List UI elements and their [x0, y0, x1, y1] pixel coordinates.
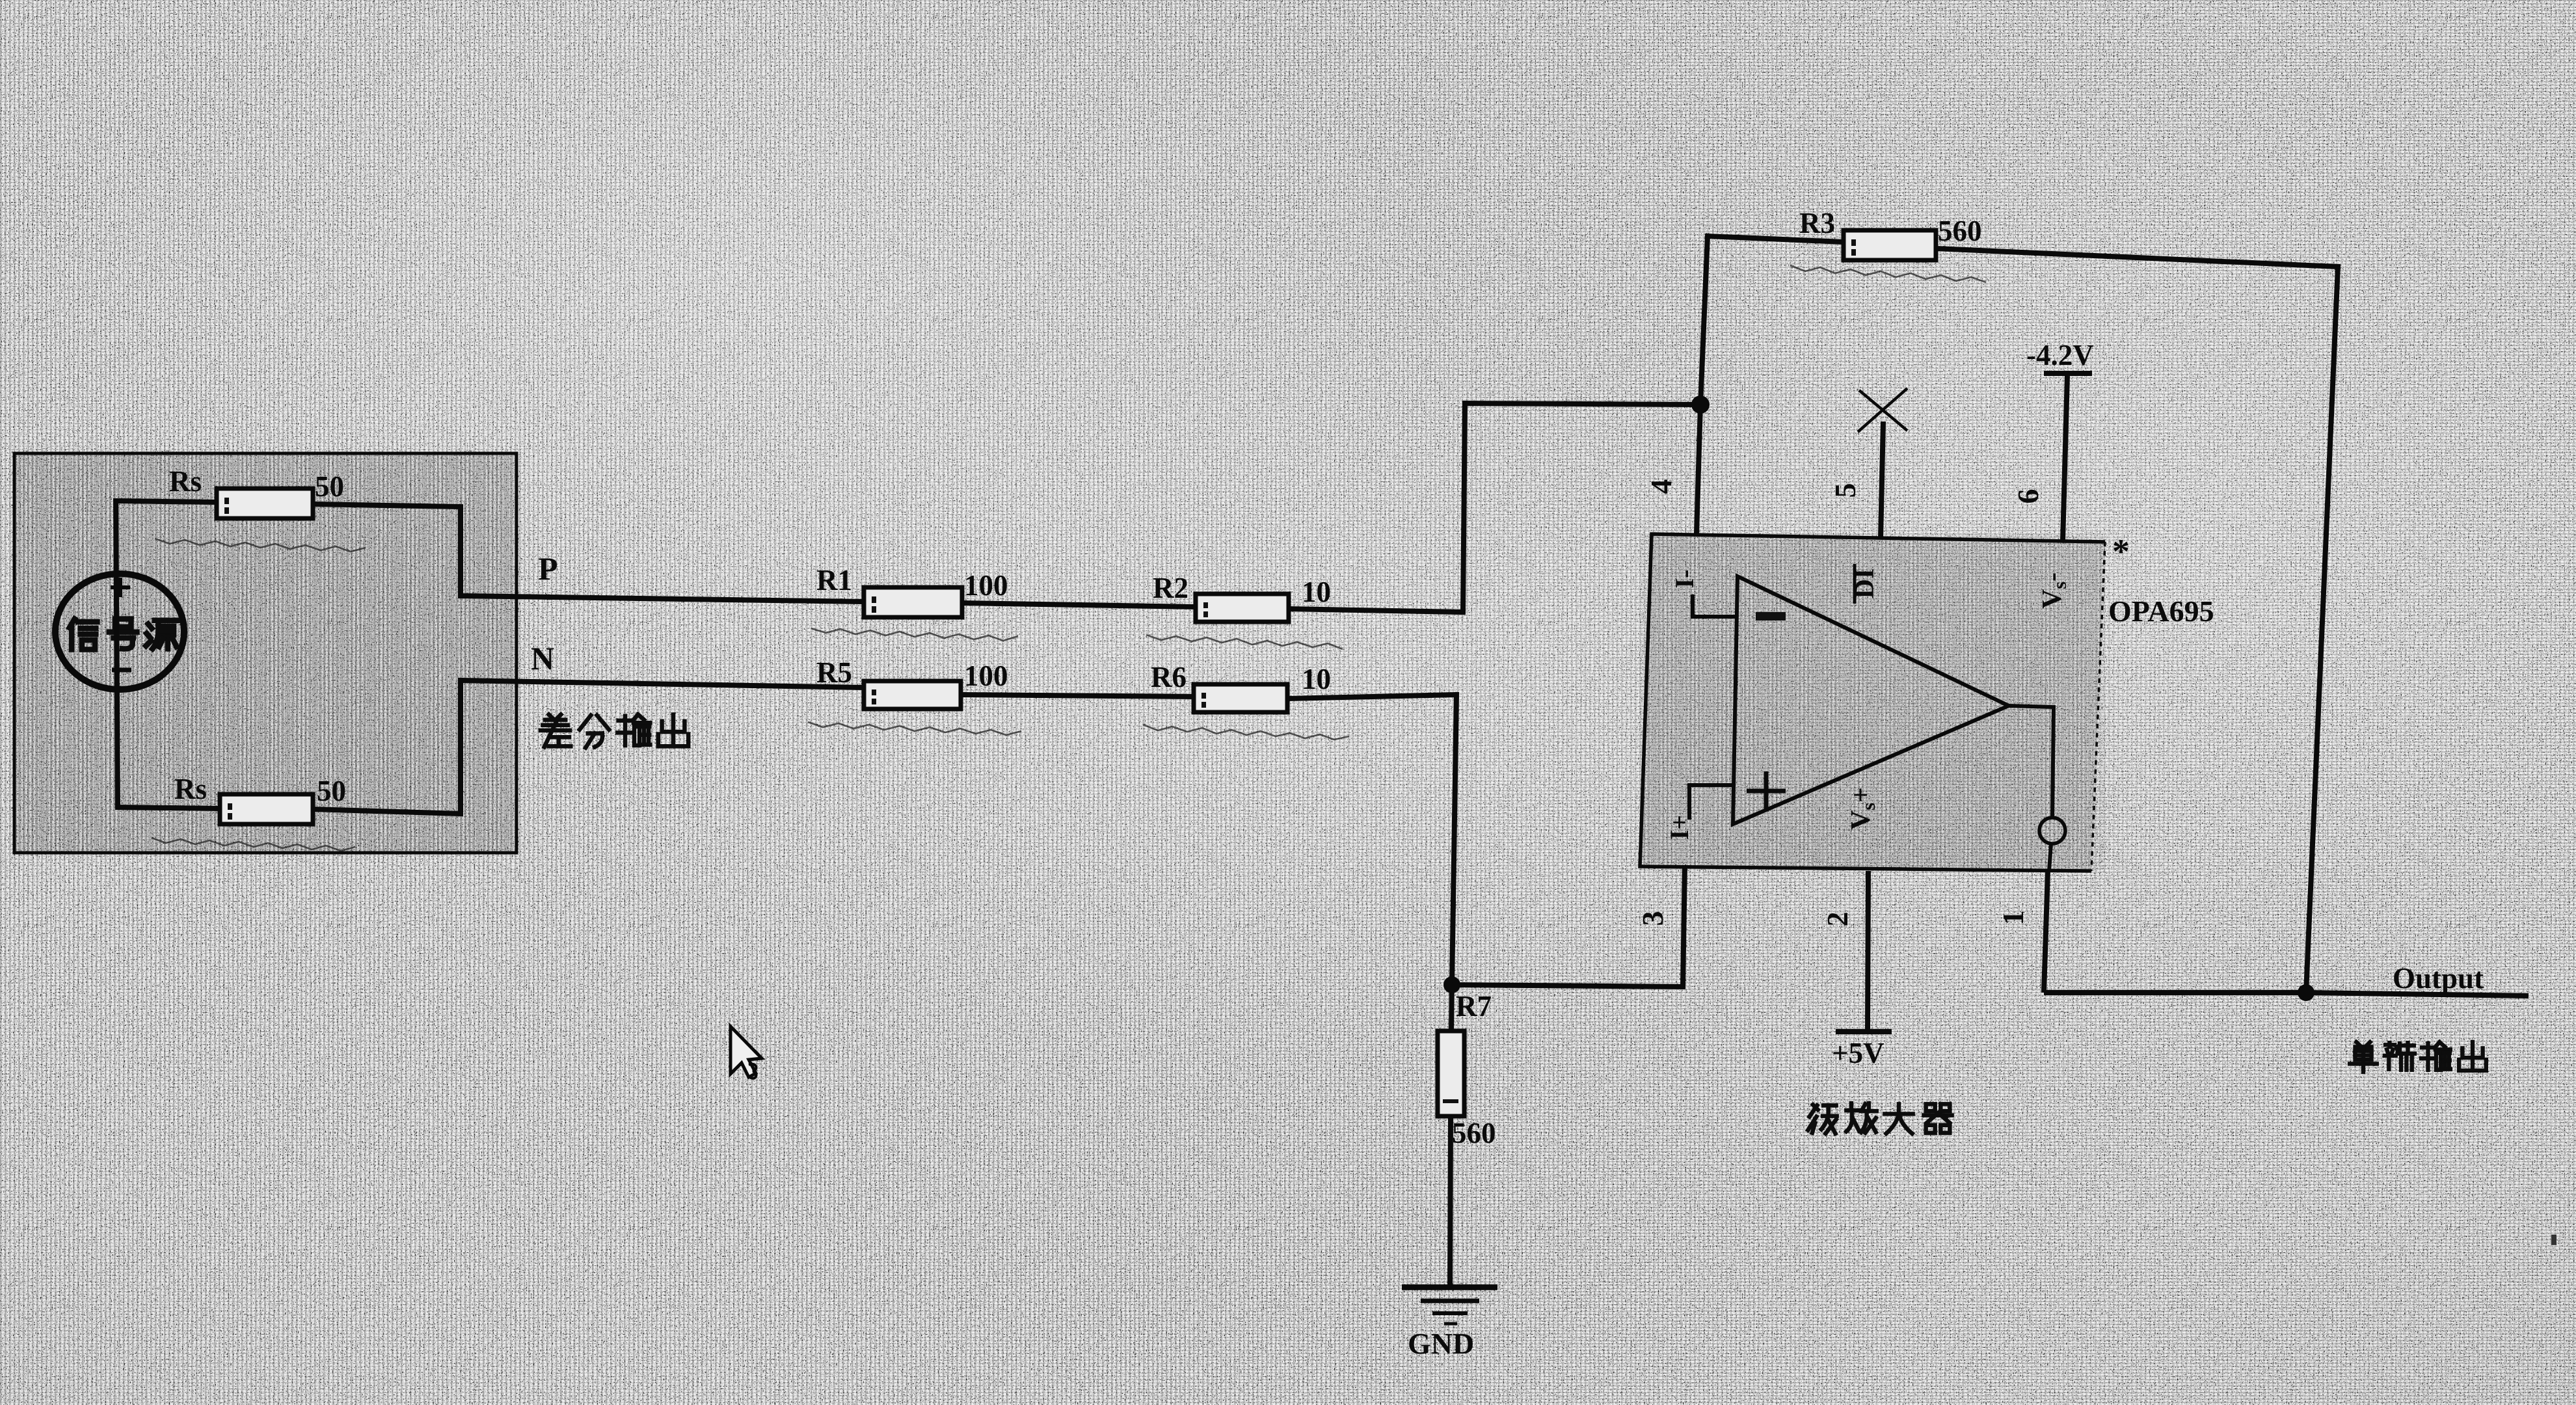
svg-text:100: 100: [964, 569, 1008, 602]
svg-text:Output: Output: [2393, 962, 2484, 995]
svg-text:5: 5: [1829, 483, 1862, 498]
svg-text:N: N: [531, 640, 554, 676]
svg-text:2: 2: [1821, 912, 1854, 927]
svg-text:100: 100: [964, 660, 1008, 692]
svg-text:Vs-: Vs-: [2037, 572, 2071, 609]
svg-text:50: 50: [317, 775, 346, 807]
svg-text:1: 1: [1996, 911, 2030, 926]
svg-text:Rs: Rs: [169, 465, 202, 498]
svg-text:GND: GND: [1408, 1327, 1474, 1360]
svg-text:Rs: Rs: [174, 773, 207, 805]
svg-text:P: P: [538, 550, 558, 587]
svg-text:10: 10: [1302, 576, 1331, 608]
svg-text:I+: I+: [1665, 815, 1694, 840]
svg-text:6: 6: [2011, 489, 2045, 504]
svg-text:560: 560: [1452, 1117, 1496, 1149]
svg-text:10: 10: [1302, 663, 1331, 695]
svg-text:+5V: +5V: [1832, 1037, 1885, 1069]
svg-text:R7: R7: [1456, 990, 1492, 1023]
svg-text:3: 3: [1636, 911, 1669, 926]
svg-text:560: 560: [1938, 215, 1982, 247]
svg-text:R2: R2: [1153, 572, 1188, 604]
svg-text:4: 4: [1644, 479, 1678, 494]
svg-text:R1: R1: [816, 564, 852, 596]
svg-text:I-: I-: [1670, 570, 1699, 589]
svg-text:R5: R5: [816, 656, 852, 689]
svg-text:OPA695: OPA695: [2108, 595, 2214, 628]
svg-text:*: *: [2112, 532, 2130, 571]
svg-text:50: 50: [315, 470, 344, 503]
svg-text:-4.2V: -4.2V: [2026, 339, 2094, 371]
svg-text:R6: R6: [1151, 661, 1187, 693]
svg-text:R3: R3: [1799, 207, 1835, 239]
